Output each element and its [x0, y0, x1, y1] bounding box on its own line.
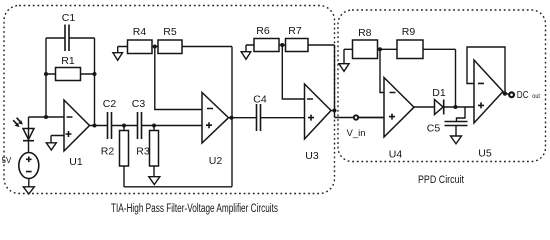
- 5V source V1: [2, 153, 39, 179]
- wire source to ground: [28, 179, 30, 188]
- svg-text:R2: R2: [101, 146, 115, 158]
- wire D1 to U5 non-inverting input: [444, 106, 474, 108]
- node at R1 right: [93, 72, 97, 76]
- svg-text:C4: C4: [253, 94, 267, 106]
- resistor R4: [128, 26, 153, 54]
- wire U4 output to D1: [414, 106, 435, 108]
- svg-text:PPD Circuit: PPD Circuit: [418, 174, 464, 186]
- svg-text:TIA-High Pass Filter-Voltage A: TIA-High Pass Filter-Voltage Amplifier C…: [111, 203, 278, 215]
- wire R8 left to ground: [344, 49, 353, 63]
- resistor R5: [158, 26, 182, 54]
- ground below R3: [149, 177, 160, 185]
- wire divider node down to U4 inverting input: [380, 49, 384, 92]
- svg-text:R9: R9: [402, 26, 416, 38]
- wire R8 to R9: [378, 48, 398, 50]
- wire V_in to U4 non-inverting input: [358, 117, 384, 119]
- svg-text:C1: C1: [62, 12, 76, 24]
- resistor R2: [101, 126, 129, 188]
- node U5 output: [503, 92, 507, 96]
- svg-text:U3: U3: [305, 150, 319, 162]
- ground below 5V source: [23, 187, 34, 194]
- wire R6 left to ground: [246, 45, 254, 52]
- svg-text:R1: R1: [61, 55, 75, 67]
- wire R7 to U3 output vertical: [308, 45, 335, 111]
- svg-text:C3: C3: [132, 98, 146, 110]
- capacitor C2: [103, 98, 117, 139]
- capacitor C1: [46, 12, 95, 51]
- node U2 output: [230, 116, 234, 120]
- op-amp U3: [305, 84, 332, 162]
- capacitor C5: [427, 107, 468, 136]
- svg-text:C2: C2: [103, 98, 117, 110]
- resistor R8: [353, 27, 378, 59]
- wire R4 to R5: [152, 46, 158, 48]
- wire C4 to U3 non-inverting input: [261, 117, 305, 119]
- photodiode D (light arrows): [13, 118, 23, 127]
- node U3 output: [333, 109, 337, 113]
- ground below C5: [451, 136, 462, 144]
- terminal DC_out: [509, 92, 514, 97]
- op-amp U4: [384, 78, 414, 161]
- ground at R4 left: [113, 53, 123, 61]
- node feedback to inverting input: [44, 115, 48, 119]
- wire C3 to U2 non-inverting input: [142, 125, 203, 127]
- wire U5 output: [503, 93, 510, 95]
- wire feedback right vertical (C1/R1 to U1 output node): [94, 38, 96, 126]
- node terminal V_in: [354, 115, 358, 119]
- node U1 output feedback: [93, 124, 97, 128]
- wire R6 to R7: [279, 44, 286, 46]
- resistor R3: [136, 126, 158, 178]
- svg-text:R8: R8: [358, 27, 372, 39]
- wire feedback left vertical (C1/R1 to U1 minus node): [45, 38, 47, 117]
- capacitor C3: [132, 98, 146, 139]
- node D1/C5: [454, 105, 458, 109]
- wire photodiode drop: [28, 117, 30, 153]
- wire R9 right down to diode node: [423, 49, 456, 107]
- svg-text:out: out: [532, 93, 540, 100]
- resistor R7: [286, 25, 309, 52]
- node R3 top: [152, 124, 156, 128]
- wire R2 bottom feedback run to U2 output: [124, 186, 232, 188]
- svg-text:5V: 5V: [2, 156, 12, 165]
- diode D1: [432, 87, 446, 115]
- svg-text:D1: D1: [432, 87, 446, 99]
- resistor R6: [254, 25, 279, 52]
- svg-text:R5: R5: [163, 26, 177, 38]
- ground at R6 left: [241, 52, 251, 60]
- ground at U1 non-inverting input: [46, 143, 56, 150]
- resistor R9: [397, 26, 423, 59]
- wire C2 to C3: [112, 125, 138, 127]
- svg-text:U2: U2: [209, 155, 223, 167]
- wire divider node down to U2 inverting input: [155, 47, 202, 110]
- svg-text:R7: R7: [288, 25, 302, 37]
- svg-text:C5: C5: [427, 123, 441, 135]
- op-amp U5: [474, 60, 503, 160]
- node R4/R5 divider: [153, 45, 157, 49]
- wire U1 non-inverting input: [51, 136, 64, 144]
- wire divider node down to U3 inverting input: [282, 45, 304, 99]
- wire U5 feedback loop: [467, 47, 505, 94]
- ground at R8 left: [339, 64, 349, 72]
- TIA-HPF-amplifier dashed enclosure box: [4, 6, 335, 194]
- wire U3 output to V_in line: [331, 111, 384, 118]
- photodiode symbol: [23, 129, 34, 141]
- svg-text:R6: R6: [256, 25, 270, 37]
- wire U1 inverting input: [29, 116, 65, 118]
- wire U2 output: [229, 117, 257, 119]
- svg-text:V_in: V_in: [347, 128, 366, 139]
- node R6/R7 divider: [280, 43, 284, 47]
- svg-text:U4: U4: [389, 149, 403, 161]
- wire R4 left to ground: [118, 47, 128, 53]
- capacitor C4: [253, 94, 267, 132]
- svg-text:R3: R3: [136, 146, 150, 158]
- svg-text:U1: U1: [69, 156, 83, 168]
- op-amp U1: [64, 100, 90, 168]
- svg-text:DC: DC: [517, 90, 529, 101]
- node R8/R9 divider: [378, 47, 382, 51]
- PPD Circuit dashed enclosure box: [338, 10, 546, 162]
- resistor R1: [46, 55, 95, 81]
- wire U1 output: [90, 125, 108, 127]
- op-amp U2: [202, 93, 229, 168]
- node R2 top: [122, 124, 126, 128]
- node at R1 left: [44, 72, 48, 76]
- svg-text:U5: U5: [478, 148, 492, 160]
- wire R5 to U2 output vertical: [182, 47, 232, 187]
- svg-text:R4: R4: [133, 26, 147, 38]
